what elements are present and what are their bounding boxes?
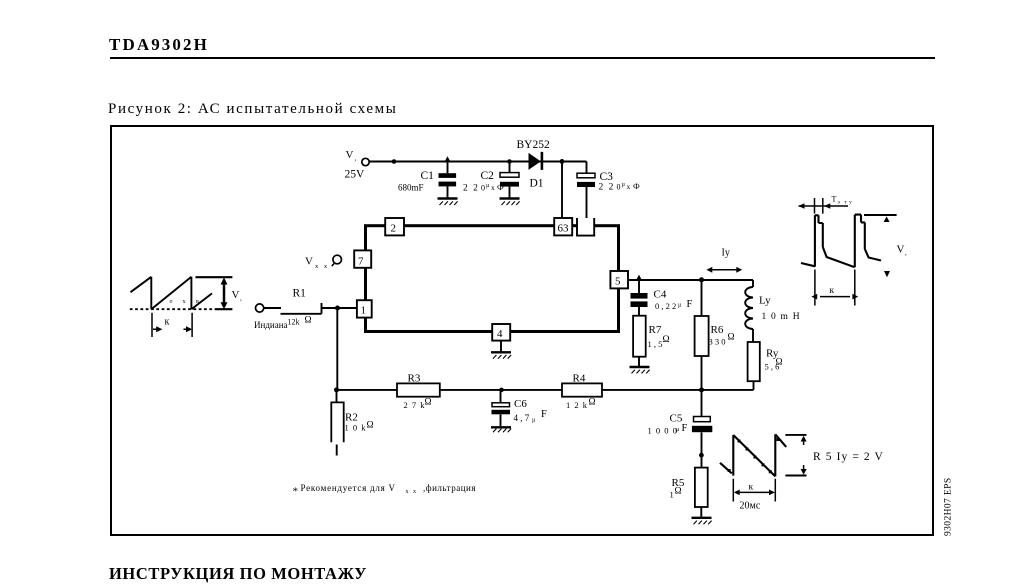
- svg-text:V: V: [897, 244, 905, 256]
- svg-text:9302H07 EPS: 9302H07 EPS: [944, 477, 954, 536]
- svg-text:Ω: Ω: [367, 421, 374, 431]
- svg-text:1 0 0 0: 1 0 0 0: [648, 426, 678, 436]
- svg-text:Ω: Ω: [776, 358, 783, 368]
- svg-text:R3: R3: [408, 373, 421, 385]
- svg-text:1: 1: [361, 305, 367, 317]
- svg-text:Ω: Ω: [728, 333, 735, 343]
- svg-text:0 , 2 2: 0 , 2 2: [655, 301, 676, 311]
- svg-text:к: к: [830, 286, 835, 296]
- svg-text:у: у: [849, 200, 852, 206]
- svg-text:5: 5: [615, 276, 621, 288]
- svg-text:3 3 0: 3 3 0: [709, 337, 726, 347]
- svg-text:2: 2: [391, 223, 397, 235]
- svg-text:7: 7: [358, 256, 364, 268]
- svg-text:Ω: Ω: [305, 316, 312, 326]
- svg-text:Ω: Ω: [675, 487, 682, 497]
- svg-text:25V: 25V: [345, 168, 366, 180]
- svg-text:,: ,: [355, 155, 357, 163]
- svg-text:C4: C4: [654, 289, 667, 301]
- svg-text:63: 63: [558, 223, 570, 235]
- svg-text:C6: C6: [514, 398, 527, 410]
- svg-text:0: 0: [617, 183, 621, 192]
- svg-text:D1: D1: [530, 178, 544, 190]
- svg-text:2 7 k: 2 7 k: [404, 400, 426, 410]
- svg-text:V: V: [346, 149, 354, 161]
- svg-text:к: к: [749, 483, 754, 493]
- svg-text:12k: 12k: [288, 318, 300, 327]
- svg-text:C1: C1: [421, 170, 435, 182]
- svg-text:,: ,: [240, 295, 242, 303]
- svg-text:x: x: [183, 299, 186, 305]
- svg-text:1 , 5: 1 , 5: [648, 339, 663, 349]
- svg-text:4: 4: [497, 328, 503, 340]
- svg-text:µ: µ: [486, 183, 490, 189]
- svg-text:x: x: [627, 182, 631, 191]
- svg-text:BY252: BY252: [517, 139, 550, 151]
- svg-text:V: V: [305, 256, 313, 268]
- svg-text:o: o: [170, 299, 173, 305]
- svg-text:20мс: 20мс: [740, 501, 761, 512]
- svg-text:R7: R7: [649, 324, 662, 336]
- svg-text:F: F: [541, 409, 547, 420]
- svg-text:C2: C2: [481, 170, 495, 182]
- svg-text:,: ,: [905, 249, 907, 257]
- svg-text:F: F: [687, 299, 693, 310]
- svg-text:Ω: Ω: [589, 398, 596, 408]
- svg-text:Ly: Ly: [759, 295, 771, 307]
- svg-text:э т: э т: [838, 200, 849, 206]
- svg-text:Iy: Iy: [722, 248, 730, 259]
- svg-text:1 0 k: 1 0 k: [345, 423, 367, 433]
- svg-text:680mF: 680mF: [398, 183, 424, 193]
- svg-text:R 5 Iy = 2 V: R 5 Iy = 2 V: [813, 451, 884, 463]
- svg-text:,фильтрация: ,фильтрация: [423, 483, 476, 493]
- svg-text:2 2: 2 2: [463, 184, 479, 194]
- svg-text:Рекомендуется для V: Рекомендуется для V: [301, 483, 396, 493]
- svg-text:*: *: [293, 486, 299, 498]
- svg-text:C3: C3: [600, 171, 614, 183]
- svg-text:F: F: [682, 423, 688, 434]
- svg-text:µ: µ: [678, 303, 682, 309]
- svg-text:x x: x x: [315, 263, 329, 270]
- svg-text:2 2: 2 2: [599, 183, 615, 193]
- svg-text:µ: µ: [676, 427, 680, 433]
- svg-text:x: x: [491, 183, 495, 192]
- svg-text:1: 1: [670, 490, 674, 500]
- svg-text:R4: R4: [573, 373, 586, 385]
- svg-text:V: V: [232, 289, 240, 301]
- svg-text:4 , 7: 4 , 7: [514, 413, 530, 423]
- svg-text:к: к: [165, 317, 170, 328]
- svg-text:R6: R6: [711, 324, 724, 336]
- svg-text:µ: µ: [622, 182, 626, 188]
- svg-text:R1: R1: [293, 288, 307, 300]
- svg-text:в: в: [196, 299, 199, 305]
- svg-text:Ф: Ф: [633, 181, 640, 191]
- svg-text:Ω: Ω: [663, 335, 670, 345]
- svg-text:1 2 k: 1 2 k: [566, 400, 588, 410]
- svg-text:Ω: Ω: [425, 398, 432, 408]
- svg-text:1 0 m H: 1 0 m H: [762, 312, 801, 322]
- svg-text:Ф: Ф: [497, 182, 504, 192]
- svg-text:0: 0: [481, 184, 485, 193]
- svg-text:Индиана: Индиана: [254, 320, 288, 330]
- svg-text:T: T: [832, 195, 837, 204]
- svg-text:x x: x x: [406, 489, 418, 495]
- svg-text:µ: µ: [532, 418, 536, 424]
